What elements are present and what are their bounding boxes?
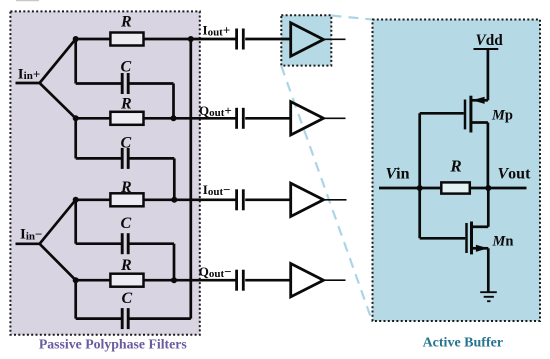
svg-text:R: R: [120, 257, 132, 274]
svg-text:Vin: Vin: [386, 165, 410, 182]
svg-text:Mp: Mp: [491, 107, 513, 123]
svg-text:R: R: [120, 179, 132, 196]
svg-text:C: C: [120, 134, 131, 151]
svg-text:R: R: [120, 13, 132, 30]
svg-text:Vout: Vout: [498, 165, 532, 182]
svg-text:Passive Polyphase Filters: Passive Polyphase Filters: [39, 336, 188, 351]
svg-text:C: C: [120, 215, 131, 232]
svg-text:Active Buffer: Active Buffer: [423, 335, 503, 350]
svg-text:R: R: [449, 157, 461, 176]
svg-text:Vdd: Vdd: [476, 32, 504, 49]
svg-text:C: C: [120, 59, 131, 76]
svg-text:Mn: Mn: [492, 233, 514, 249]
svg-text:R: R: [120, 95, 132, 112]
svg-text:C: C: [121, 290, 132, 307]
